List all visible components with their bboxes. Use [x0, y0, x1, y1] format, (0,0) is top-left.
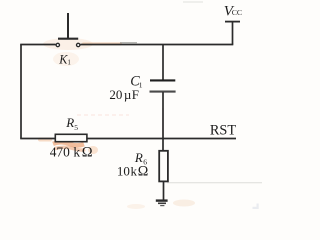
- svg-text:1: 1: [67, 58, 71, 66]
- svg-text:k: k: [131, 164, 138, 179]
- ground symbol bar 3: [160, 205, 164, 207]
- wire: R6 bottom lead: [163, 181, 165, 199]
- wire: Vcc vertical drop: [232, 22, 234, 45]
- svg-text:CC: CC: [232, 8, 242, 17]
- label Vcc: [224, 4, 242, 20]
- switch K1 right contact: [77, 43, 80, 46]
- svg-text:Ω: Ω: [138, 164, 149, 180]
- ground symbol bar 2: [158, 202, 166, 204]
- ground symbol bar 1: [156, 199, 168, 201]
- wire: switch to Vcc corner: [80, 44, 233, 46]
- wire: RST line from R5 to right: [87, 138, 236, 140]
- resistor R5 body: [55, 134, 87, 141]
- wire: capacitor bottom lead down to RST junction and R6: [162, 92, 164, 151]
- switch K1 stem: [67, 13, 69, 38]
- svg-text:µ: µ: [124, 87, 132, 102]
- svg-text:Ω: Ω: [82, 144, 93, 160]
- node: junction of capacitor/R6 branch with RST line: [162, 138, 164, 140]
- power Vcc terminal tick: [225, 21, 240, 23]
- switch K1 left contact: [56, 43, 59, 46]
- svg-text:5: 5: [74, 123, 78, 132]
- background paper: [0, 0, 262, 211]
- wire: top-left horizontal to switch: [20, 44, 56, 46]
- wire: left rail vertical: [20, 45, 22, 139]
- wire: capacitor top lead: [162, 45, 164, 80]
- svg-text:1: 1: [139, 80, 143, 89]
- label R5: [65, 115, 78, 132]
- svg-text:20: 20: [109, 87, 122, 102]
- capacitor C1 top plate: [150, 79, 175, 81]
- svg-text:RST: RST: [210, 123, 236, 139]
- svg-text:470: 470: [50, 144, 70, 159]
- label C1: [130, 74, 143, 90]
- switch K1 actuator bar: [58, 38, 78, 40]
- resistor R6 body: [159, 151, 168, 182]
- svg-text:F: F: [132, 87, 139, 102]
- svg-text:R: R: [65, 115, 74, 130]
- svg-text:10: 10: [117, 164, 130, 179]
- wire: bottom wire left segment: [20, 138, 55, 140]
- label R6: [134, 150, 147, 167]
- svg-text:k: k: [73, 144, 80, 159]
- label K1: [58, 52, 71, 66]
- capacitor C1 bottom plate: [150, 91, 176, 93]
